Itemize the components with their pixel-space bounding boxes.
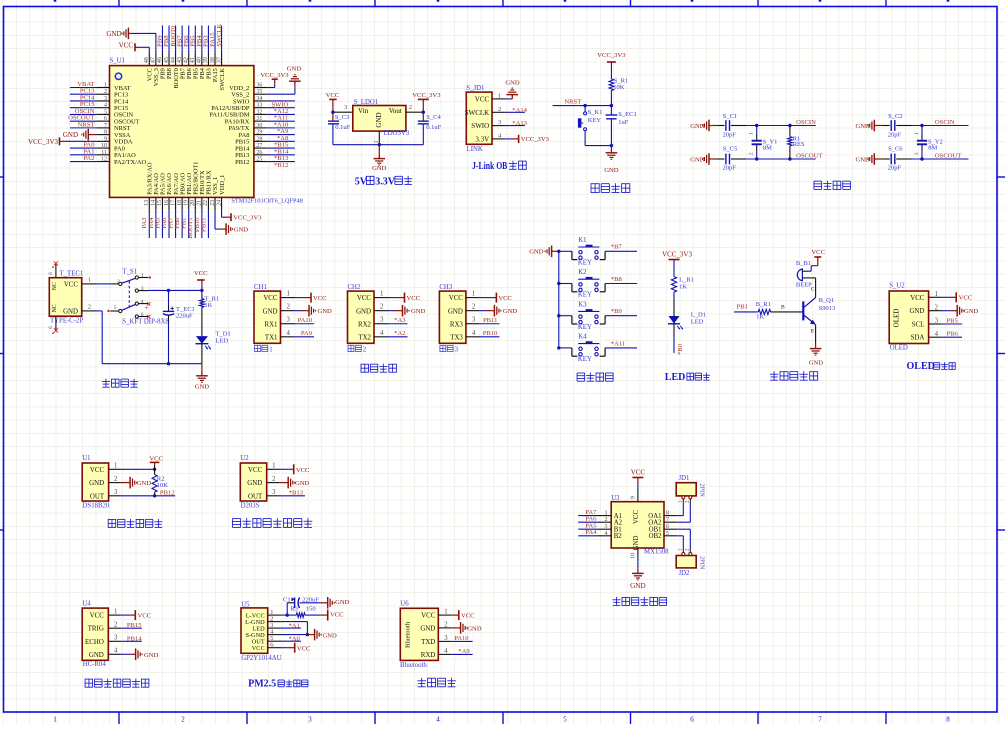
svg-text:S_C4: S_C4 [426, 114, 441, 121]
svg-text:S_C5: S_C5 [723, 145, 737, 152]
svg-text:23: 23 [210, 200, 216, 206]
svg-text:33: 33 [256, 103, 262, 109]
svg-text:3: 3 [272, 489, 276, 496]
svg-text:VCC_3V3: VCC_3V3 [412, 92, 441, 99]
svg-text:2: 2 [104, 89, 107, 95]
svg-text:U1: U1 [82, 455, 90, 462]
svg-text:44: 44 [170, 57, 176, 63]
svg-text:32: 32 [256, 109, 262, 115]
svg-text:VCC: VCC [633, 510, 640, 524]
svg-text:*B13: *B13 [289, 490, 304, 497]
svg-text:1K: 1K [756, 314, 764, 321]
svg-text:VCC: VCC [297, 645, 311, 652]
svg-text:Bluetooth: Bluetooth [400, 662, 427, 669]
svg-text:GND: GND [690, 123, 705, 130]
svg-text:B_R1: B_R1 [756, 301, 771, 308]
svg-text:45: 45 [164, 57, 170, 63]
svg-text:PB15: PB15 [127, 622, 142, 629]
svg-text:GND: GND [505, 79, 520, 86]
svg-text:1: 1 [88, 277, 91, 284]
svg-text:VCC: VCC [357, 295, 372, 302]
svg-text:PB6: PB6 [946, 331, 958, 338]
svg-text:9: 9 [631, 496, 637, 499]
svg-text:150: 150 [306, 605, 316, 612]
svg-text:OLED: OLED [907, 361, 935, 372]
svg-text:2: 2 [935, 304, 939, 311]
svg-text:S9013: S9013 [819, 305, 836, 312]
svg-text:25: 25 [256, 157, 262, 163]
svg-text:3: 3 [104, 96, 107, 102]
svg-text:MX1508: MX1508 [644, 548, 669, 555]
svg-text:VCC: VCC [631, 468, 646, 476]
svg-text:PB10: PB10 [483, 330, 498, 337]
svg-text:1: 1 [374, 140, 380, 143]
svg-text:47: 47 [151, 57, 157, 63]
svg-text:3: 3 [605, 524, 608, 530]
svg-text:3: 3 [308, 716, 312, 724]
svg-text:5: 5 [563, 716, 567, 724]
svg-text:PB12: PB12 [235, 159, 249, 166]
svg-text:KEY: KEY [578, 292, 592, 299]
svg-text:VCC: VCC [421, 613, 436, 620]
svg-text:NRST: NRST [78, 121, 95, 128]
svg-text:C1: C1 [283, 596, 291, 603]
svg-text:S_KFT DIP-8X8: S_KFT DIP-8X8 [122, 319, 169, 326]
svg-text:2: 2 [605, 517, 608, 523]
svg-text:*B12: *B12 [274, 162, 288, 169]
svg-text:GND: GND [287, 65, 302, 72]
svg-text:17: 17 [170, 200, 176, 206]
svg-text:*B0: *B0 [677, 343, 684, 355]
svg-text:29: 29 [256, 130, 262, 136]
svg-text:S_EC1: S_EC1 [618, 111, 636, 118]
svg-text:U2: U2 [240, 455, 249, 462]
svg-text:1: 1 [498, 93, 501, 100]
svg-text:RES: RES [793, 141, 805, 148]
svg-text:20pF: 20pF [723, 131, 737, 138]
svg-text:GND: GND [448, 308, 463, 315]
svg-text:13: 13 [144, 200, 150, 206]
svg-text:1: 1 [53, 716, 57, 724]
svg-text:NRST: NRST [564, 99, 581, 106]
svg-text:4: 4 [605, 531, 608, 537]
svg-text:CH1: CH1 [254, 284, 267, 291]
svg-text:VCC: VCC [64, 282, 79, 289]
svg-text:K2: K2 [578, 269, 587, 276]
svg-text:VCC: VCC [475, 95, 490, 103]
svg-text:GND: GND [263, 308, 278, 315]
svg-text:2PIN: 2PIN [699, 484, 706, 498]
svg-text:PA10: PA10 [454, 635, 469, 642]
svg-text:43: 43 [177, 57, 183, 63]
svg-text:OLED: OLED [890, 344, 908, 351]
svg-text:3: 3 [114, 489, 118, 496]
svg-text:VCC: VCC [248, 467, 263, 474]
svg-text:GND: GND [323, 632, 338, 639]
svg-text:VCC_3V3: VCC_3V3 [597, 52, 626, 59]
svg-text:37: 37 [216, 57, 222, 63]
svg-text:GND: GND [335, 599, 350, 606]
svg-text:4: 4 [444, 648, 448, 655]
svg-text:14: 14 [151, 200, 157, 206]
svg-text:1: 1 [287, 291, 290, 298]
svg-text:1: 1 [444, 609, 447, 616]
svg-text:GND: GND [63, 131, 78, 139]
svg-text:6: 6 [48, 326, 54, 329]
svg-text:TYPE-C-2P: TYPE-C-2P [50, 317, 83, 324]
svg-text:SWCLK: SWCLK [465, 109, 490, 117]
svg-text:6: 6 [690, 716, 694, 724]
svg-text:27: 27 [256, 143, 262, 149]
svg-text:10K: 10K [157, 482, 169, 489]
svg-text:9: 9 [104, 136, 107, 142]
svg-text:8: 8 [104, 130, 107, 136]
svg-text:1: 1 [114, 463, 117, 470]
svg-text:OUT: OUT [90, 493, 105, 500]
svg-text:*A9: *A9 [458, 648, 470, 655]
svg-text:PB11: PB11 [483, 317, 497, 324]
svg-text:OUT: OUT [248, 493, 263, 500]
svg-text:D203S: D203S [241, 502, 260, 509]
svg-text:1K: 1K [679, 284, 687, 291]
svg-text:2: 2 [114, 476, 118, 483]
svg-text:48: 48 [144, 57, 150, 63]
svg-text:1: 1 [380, 291, 383, 298]
svg-text:VCC: VCC [119, 42, 134, 50]
svg-text:GND: GND [529, 248, 544, 255]
svg-text:KEY: KEY [578, 324, 592, 331]
svg-text:41: 41 [190, 57, 196, 63]
svg-text:6: 6 [666, 524, 669, 530]
svg-text:8: 8 [666, 511, 669, 517]
svg-text:VCC: VCC [313, 295, 327, 302]
svg-text:5: 5 [666, 531, 669, 537]
svg-text:PA6: PA6 [585, 516, 597, 523]
svg-text:4: 4 [472, 330, 476, 337]
svg-text:3.3V: 3.3V [475, 135, 489, 143]
svg-text:SWIO: SWIO [471, 122, 489, 130]
svg-text:GND: GND [295, 480, 310, 487]
svg-text:TRIG: TRIG [88, 626, 104, 633]
svg-text:46: 46 [157, 57, 163, 63]
svg-text:7: 7 [818, 716, 822, 724]
svg-text:4: 4 [104, 103, 107, 109]
svg-text:GND: GND [604, 167, 619, 174]
svg-text:*A14: *A14 [512, 107, 527, 114]
svg-text:20pF: 20pF [888, 131, 902, 138]
svg-text:34: 34 [256, 96, 262, 102]
svg-text:GND: GND [909, 308, 924, 315]
svg-text:39: 39 [203, 57, 209, 63]
svg-text:20pF: 20pF [888, 165, 902, 172]
svg-text:4: 4 [436, 716, 440, 724]
svg-text:SDA: SDA [911, 335, 925, 342]
svg-text:B: B [781, 304, 785, 310]
svg-text:20: 20 [190, 200, 196, 206]
svg-text:L_D1: L_D1 [691, 311, 706, 318]
svg-text:VCC: VCC [910, 295, 925, 302]
svg-text:6: 6 [48, 272, 54, 275]
svg-text:10: 10 [101, 143, 107, 149]
svg-text:KEY: KEY [588, 117, 602, 124]
svg-text:4: 4 [114, 648, 118, 655]
svg-text:T_S1: T_S1 [122, 268, 137, 275]
svg-text:1: 1 [272, 463, 275, 470]
svg-text:LINK: LINK [467, 146, 483, 153]
svg-text:VCC: VCC [296, 467, 310, 474]
svg-text:VCC: VCC [90, 467, 105, 474]
svg-text:OLED: OLED [893, 309, 901, 328]
svg-text:K3: K3 [578, 301, 587, 308]
svg-text:11: 11 [101, 150, 107, 156]
svg-text:U4: U4 [83, 601, 92, 608]
svg-text:Bluetooth: Bluetooth [404, 621, 411, 648]
svg-text:1: 1 [141, 272, 144, 278]
svg-text:2: 2 [181, 716, 185, 724]
svg-text:*A11: *A11 [611, 340, 625, 347]
svg-text:E: E [811, 329, 815, 335]
svg-text:2: 2 [88, 304, 91, 311]
svg-text:VCC: VCC [959, 295, 973, 302]
svg-text:VCC: VCC [326, 92, 340, 99]
svg-text:0.1uF: 0.1uF [335, 124, 350, 131]
svg-text:3: 3 [141, 286, 144, 292]
svg-text:2: 2 [117, 279, 120, 285]
svg-text:2: 2 [472, 304, 476, 311]
svg-text:VCC_3V3: VCC_3V3 [28, 138, 58, 146]
svg-text:GND: GND [375, 112, 383, 127]
svg-text:OSCIN: OSCIN [796, 119, 816, 126]
svg-text:GND: GND [856, 123, 871, 130]
svg-text:LDO3V3: LDO3V3 [384, 130, 410, 137]
svg-text:2: 2 [685, 500, 691, 503]
svg-text:VCC: VCC [498, 295, 512, 302]
svg-text:B_B1: B_B1 [796, 260, 811, 267]
svg-text:JD1: JD1 [679, 475, 690, 482]
svg-text:20pF: 20pF [723, 165, 737, 172]
svg-text:GND: GND [411, 308, 426, 315]
svg-text:1: 1 [472, 291, 475, 298]
svg-text:10: 10 [631, 553, 637, 559]
svg-text:4: 4 [287, 330, 291, 337]
svg-text:15: 15 [157, 200, 163, 206]
svg-text:6: 6 [270, 642, 273, 649]
svg-text:GND: GND [318, 308, 333, 315]
svg-text:GND: GND [356, 308, 371, 315]
svg-text:8: 8 [946, 716, 950, 724]
svg-text:GND: GND [137, 480, 152, 487]
svg-text:SWCLK: SWCLK [219, 68, 226, 91]
svg-text:8M: 8M [928, 145, 937, 152]
svg-text:GND: GND [420, 625, 435, 632]
svg-text:4: 4 [380, 330, 384, 337]
svg-text:*A13: *A13 [512, 120, 527, 127]
svg-text:35: 35 [256, 89, 262, 95]
svg-text:1: 1 [269, 347, 272, 354]
svg-text:4: 4 [141, 299, 144, 305]
svg-text:NC: NC [52, 282, 58, 290]
svg-text:B2: B2 [614, 533, 623, 540]
svg-text:SWCLK: SWCLK [216, 23, 223, 46]
svg-text:5: 5 [114, 305, 117, 311]
svg-text:GND: GND [247, 480, 262, 487]
svg-text:10K: 10K [613, 84, 625, 91]
svg-text:28: 28 [256, 136, 262, 142]
svg-text:A2: A2 [614, 520, 623, 527]
svg-text:HC-R04: HC-R04 [83, 661, 107, 668]
svg-text:VCC: VCC [252, 645, 265, 652]
svg-text:LED: LED [665, 372, 686, 383]
svg-text:VCC: VCC [461, 613, 475, 620]
svg-text:26: 26 [256, 150, 262, 156]
svg-text:PA2: PA2 [83, 155, 94, 162]
svg-text:LED: LED [216, 338, 229, 345]
svg-text:GND: GND [809, 359, 824, 366]
svg-text:VCC: VCC [194, 270, 208, 277]
svg-text:38: 38 [210, 57, 216, 63]
svg-text:8M: 8M [763, 145, 772, 152]
svg-text:B_Q1: B_Q1 [819, 297, 835, 304]
svg-text:PA9: PA9 [301, 330, 313, 337]
svg-text:GP2Y1014AU: GP2Y1014AU [241, 655, 281, 662]
svg-text:40: 40 [197, 57, 203, 63]
svg-text:*B8: *B8 [611, 276, 623, 283]
svg-text:U6: U6 [400, 600, 409, 607]
svg-text:PB1: PB1 [737, 304, 748, 311]
svg-text:21: 21 [197, 200, 203, 206]
svg-text:LED: LED [691, 319, 704, 326]
svg-text:GND: GND [144, 652, 159, 659]
svg-text:OSCOUT: OSCOUT [935, 153, 961, 160]
svg-text:PA10: PA10 [298, 317, 313, 324]
svg-text:S_C2: S_C2 [888, 113, 902, 120]
svg-text:2: 2 [409, 104, 412, 111]
svg-text:GND: GND [195, 383, 210, 390]
svg-text:TX3: TX3 [450, 334, 463, 341]
svg-text:2: 2 [363, 347, 367, 354]
svg-text:K4: K4 [578, 334, 587, 341]
svg-text:3: 3 [935, 318, 939, 325]
svg-text:U5: U5 [241, 601, 250, 608]
svg-text:VCC: VCC [407, 295, 421, 302]
svg-text:3: 3 [287, 317, 291, 324]
svg-text:GND: GND [690, 157, 705, 164]
svg-text:5V: 5V [355, 176, 368, 187]
svg-text:GND: GND [630, 582, 646, 590]
svg-text:*B7: *B7 [611, 244, 623, 251]
svg-text:1: 1 [114, 609, 117, 616]
svg-text:2PIN: 2PIN [699, 556, 706, 570]
svg-text:S_K1: S_K1 [588, 109, 603, 116]
svg-text:31: 31 [256, 116, 262, 122]
svg-text:JD2: JD2 [679, 570, 691, 577]
svg-text:2: 2 [685, 548, 691, 551]
svg-text:RX3: RX3 [450, 321, 464, 328]
svg-text:36: 36 [256, 83, 262, 89]
svg-text:PA2/TX/AO: PA2/TX/AO [114, 159, 146, 166]
svg-text:1: 1 [605, 511, 608, 517]
svg-text:RXD: RXD [421, 652, 436, 659]
svg-text:16: 16 [164, 200, 170, 206]
svg-text:*A0: *A0 [289, 636, 301, 643]
svg-text:18: 18 [177, 200, 183, 206]
svg-text:6: 6 [104, 116, 107, 122]
svg-text:S_U1: S_U1 [110, 57, 126, 64]
svg-text:2: 2 [444, 621, 448, 628]
svg-text:TXD: TXD [421, 639, 435, 646]
svg-text:J-Link OB: J-Link OB [472, 161, 507, 172]
svg-text:GND: GND [106, 30, 121, 38]
svg-text:6: 6 [141, 312, 144, 318]
svg-text:3: 3 [380, 317, 384, 324]
svg-text:1: 1 [104, 83, 107, 89]
svg-text:GND: GND [503, 308, 518, 315]
svg-text:3.3V: 3.3V [375, 176, 396, 187]
svg-text:GND: GND [467, 625, 482, 632]
svg-text:*B9: *B9 [611, 308, 623, 315]
svg-text:0.1uF: 0.1uF [426, 124, 441, 131]
svg-text:7: 7 [104, 123, 107, 129]
svg-text:TX1: TX1 [265, 334, 278, 341]
svg-text:*A3: *A3 [394, 317, 406, 324]
svg-text:1K: 1K [204, 302, 212, 309]
svg-text:42: 42 [184, 57, 190, 63]
svg-text:RX1: RX1 [264, 321, 278, 328]
svg-text:VCC: VCC [90, 613, 105, 620]
svg-text:3: 3 [344, 104, 347, 111]
svg-text:CH3: CH3 [439, 284, 452, 291]
svg-text:PA4: PA4 [585, 529, 597, 536]
svg-text:VCC_3V3: VCC_3V3 [233, 215, 262, 222]
svg-text:VDD_1: VDD_1 [219, 175, 226, 195]
svg-text:Vout: Vout [389, 107, 402, 115]
svg-text:VCC: VCC [811, 249, 825, 256]
svg-text:OA2: OA2 [648, 520, 662, 527]
svg-text:KEY: KEY [578, 260, 592, 267]
svg-text:KEY: KEY [578, 356, 592, 363]
svg-text:1: 1 [935, 291, 938, 298]
svg-text:OB2: OB2 [649, 533, 662, 540]
svg-text:SCL: SCL [912, 322, 925, 329]
svg-text:22: 22 [203, 200, 209, 206]
svg-text:VCC: VCC [449, 295, 464, 302]
svg-text:30: 30 [256, 123, 262, 129]
svg-text:*A1: *A1 [289, 623, 300, 630]
svg-text:3: 3 [472, 317, 476, 324]
svg-text:1: 1 [678, 548, 684, 551]
svg-text:PB5: PB5 [946, 318, 958, 325]
svg-text:S_C1: S_C1 [723, 113, 737, 120]
svg-text:3: 3 [444, 635, 448, 642]
svg-text:DS18B20: DS18B20 [83, 502, 110, 509]
svg-text:GND: GND [372, 165, 387, 172]
svg-text:2: 2 [114, 622, 118, 629]
svg-text:RX2: RX2 [358, 321, 372, 328]
svg-text:NC: NC [52, 304, 58, 312]
svg-text:3: 3 [114, 635, 118, 642]
svg-text:1: 1 [678, 500, 684, 503]
svg-text:BEEP: BEEP [796, 281, 812, 288]
svg-text:24: 24 [216, 200, 222, 206]
svg-text:VCC_3V3: VCC_3V3 [662, 251, 692, 259]
svg-text:1uF: 1uF [618, 119, 629, 126]
svg-text:OSCOUT: OSCOUT [796, 153, 822, 160]
svg-text:PB11: PB11 [200, 218, 207, 232]
svg-text:L_R1: L_R1 [679, 277, 694, 284]
svg-text:CH2: CH2 [348, 284, 361, 291]
svg-text:TX2: TX2 [358, 334, 371, 341]
svg-text:3: 3 [455, 347, 459, 354]
